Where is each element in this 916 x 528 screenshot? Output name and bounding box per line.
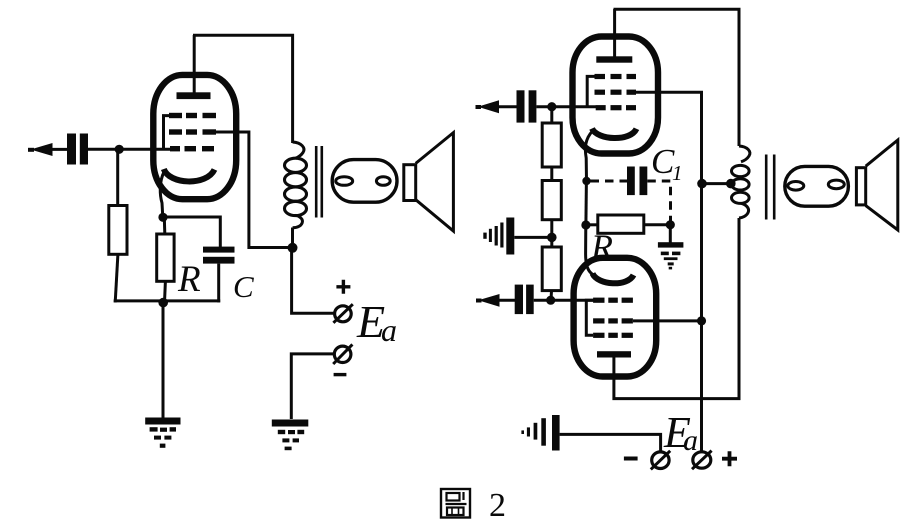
node input junction dot xyxy=(115,145,124,154)
capacitor C1 (dashed-in) xyxy=(627,167,647,196)
resistor R3 (divider bottom) xyxy=(542,247,561,291)
node screen junction dot xyxy=(697,316,706,325)
transformer T2 secondary / voice coil xyxy=(785,166,849,206)
tube V3 grid row 1 xyxy=(593,298,633,303)
wire R bottom lead xyxy=(163,281,167,302)
tube V2 grid row 3 xyxy=(596,105,636,110)
transformer T2 core lines xyxy=(765,155,768,220)
ground GND4 xyxy=(658,242,684,269)
node R4/ground junction dot xyxy=(666,220,675,229)
label + (right Ea plus) xyxy=(722,451,737,466)
wire junction to grid resistor Rg1 xyxy=(116,149,119,205)
wire cathode to capacitor C xyxy=(163,217,220,247)
terminal Ea+ right (phi) xyxy=(693,452,711,468)
wire junction to resistor R1 xyxy=(550,107,553,123)
resistor Rg1 (grid leak) xyxy=(109,206,127,255)
capacitor Cin2 (upper coupling cap) xyxy=(517,90,537,122)
wire to ground GND4 xyxy=(669,225,672,243)
wire input to tube V2 grid xyxy=(536,105,596,108)
tube V2 plate bar xyxy=(596,56,632,62)
wire V1 plate lead xyxy=(193,35,196,94)
ground GND3 (sideways) xyxy=(483,218,514,255)
tube V2 cathode arc xyxy=(592,129,637,139)
wire V2 plate lead xyxy=(613,9,616,58)
node cathode/dashed junction dot xyxy=(582,177,590,185)
wire C bottom lead xyxy=(217,264,220,303)
tube V2 grid row 1 xyxy=(595,74,637,79)
node T1/B+ junction dot xyxy=(288,243,298,253)
tube V1 grid row 1 xyxy=(169,113,216,118)
ground GND1 xyxy=(145,418,180,448)
tube V3 grid row 3 xyxy=(593,333,633,338)
node input3 junction dot xyxy=(546,296,555,305)
label - (right Ea minus) xyxy=(624,457,638,461)
tube V1 envelope xyxy=(153,75,236,199)
transformer T1 primary bump bottom xyxy=(293,215,303,228)
transformer T1 primary loop 3 xyxy=(285,187,307,201)
terminal Ea+ (phi) xyxy=(335,306,352,322)
wire ground tap xyxy=(514,236,552,239)
wire R3 to input3 junction xyxy=(550,291,554,301)
tube V1 grid row 2 xyxy=(169,129,216,134)
wire B+ top run xyxy=(193,35,293,143)
wire GND5 to Ea- terminal xyxy=(560,434,661,452)
svg-text:2: 2 xyxy=(489,487,506,524)
wire dashed link (cathode to C1 to R ground end) xyxy=(591,181,671,221)
transformer T1 primary bump top xyxy=(293,142,304,158)
caption glyph tu (figure) xyxy=(441,489,470,518)
ground GND5 (sideways, bottom) xyxy=(521,415,559,451)
tube V1 cathode arc xyxy=(164,169,215,181)
tube V3 cathode arc xyxy=(593,274,634,284)
svg-text:1: 1 xyxy=(672,161,683,185)
capacitor Cin3 (lower coupling cap) xyxy=(515,285,534,315)
node divider mid junction dot xyxy=(547,233,557,243)
speaker SP1 xyxy=(404,165,416,201)
svg-text:R: R xyxy=(177,259,201,300)
tube V1 grid row 3 xyxy=(170,146,214,151)
transformer T1 core lines xyxy=(315,146,318,218)
transformer T1 primary loop 1 xyxy=(285,158,307,172)
resistor R1 (divider top) xyxy=(542,123,561,167)
wire V2 grid tie (row1 to row3 left) xyxy=(587,76,594,106)
wire V2 cathode lead xyxy=(585,131,592,181)
wire Ea- to ground GND2 xyxy=(291,354,334,419)
wire V1 cathode lead xyxy=(160,171,164,217)
wire T2 center tap xyxy=(702,182,732,185)
label - (left Ea minus) xyxy=(334,373,347,376)
resistor R2 (divider middle) xyxy=(542,181,561,220)
wire V3 plate lead xyxy=(614,218,739,399)
transformer T1 secondary / voice coil xyxy=(332,160,397,203)
svg-text:C: C xyxy=(233,269,254,304)
transformer T2 primary loop 2 xyxy=(732,179,750,190)
wire R4 right lead xyxy=(644,223,671,226)
tube V2 envelope xyxy=(573,37,659,154)
node cathode/R junction dot xyxy=(581,220,590,229)
label + (left Ea plus) xyxy=(336,280,350,294)
wire bottom bus xyxy=(114,299,221,302)
wire input to tube V3 grid xyxy=(534,299,596,302)
node bottom junction dot xyxy=(158,298,168,308)
node cathode junction dot xyxy=(158,213,167,222)
wire grid input to tube V1 xyxy=(88,148,171,151)
speaker SP2 xyxy=(856,168,865,205)
wire cathode bus to tube V3 xyxy=(586,225,598,277)
capacitor C (bypass, horizontal plates) xyxy=(203,247,235,264)
wire T1 primary bottom lead xyxy=(291,228,294,249)
node input2 junction dot xyxy=(547,102,556,111)
transformer T2 primary loop 3 xyxy=(732,192,750,203)
wire V3 grid tie (row1 to row3 left) xyxy=(586,300,593,335)
tube V2 grid row 2 xyxy=(595,90,637,95)
wire to ground GND1 xyxy=(162,302,165,418)
transformer T1 primary loop 2 xyxy=(285,173,307,187)
tube V3 envelope xyxy=(574,258,657,377)
resistor R (cathode bias) xyxy=(157,234,174,281)
resistor R4 (cathode R, horizontal) xyxy=(598,215,644,233)
capacitor Cin1 (input coupling cap) xyxy=(67,134,88,165)
transformer T2 primary loop 1 xyxy=(732,165,750,176)
terminal Ea- (phi) xyxy=(334,346,351,362)
svg-text:a: a xyxy=(381,312,397,348)
tube V3 plate bar xyxy=(597,351,631,357)
wire cathode to resistor R xyxy=(163,217,167,234)
wire V2 screen lead to right xyxy=(636,92,702,452)
wire V1 grid tie (row1 to row3 left) xyxy=(164,116,170,150)
wire Rg1 bottom lead xyxy=(115,254,118,302)
wire R4 left lead xyxy=(586,223,598,226)
wire cathode bus down xyxy=(584,181,588,225)
input arrow 3 (lower) xyxy=(476,294,515,307)
transformer T2 primary bump top xyxy=(739,146,750,162)
terminal Ea- right (phi) xyxy=(652,452,669,469)
input arrow (left) xyxy=(28,143,67,156)
ground GND2 xyxy=(272,420,309,451)
node center tap dots xyxy=(697,179,707,189)
wire R1 to R2 xyxy=(550,167,553,181)
tube V3 grid row 2 xyxy=(593,318,633,323)
wire R2 to R3 xyxy=(550,220,553,247)
tube V1 plate bar xyxy=(177,92,211,99)
wire B+ down to Ea+ terminal xyxy=(292,248,335,313)
transformer T1 primary loop 4 xyxy=(285,201,307,215)
input arrow 2 (upper) xyxy=(476,100,517,113)
wire V1 screen lead to right xyxy=(215,132,293,248)
wire V3 screen lead to right xyxy=(633,319,702,322)
wire B+ top run (right) xyxy=(614,9,740,146)
transformer T2 primary bump bottom xyxy=(739,203,749,218)
